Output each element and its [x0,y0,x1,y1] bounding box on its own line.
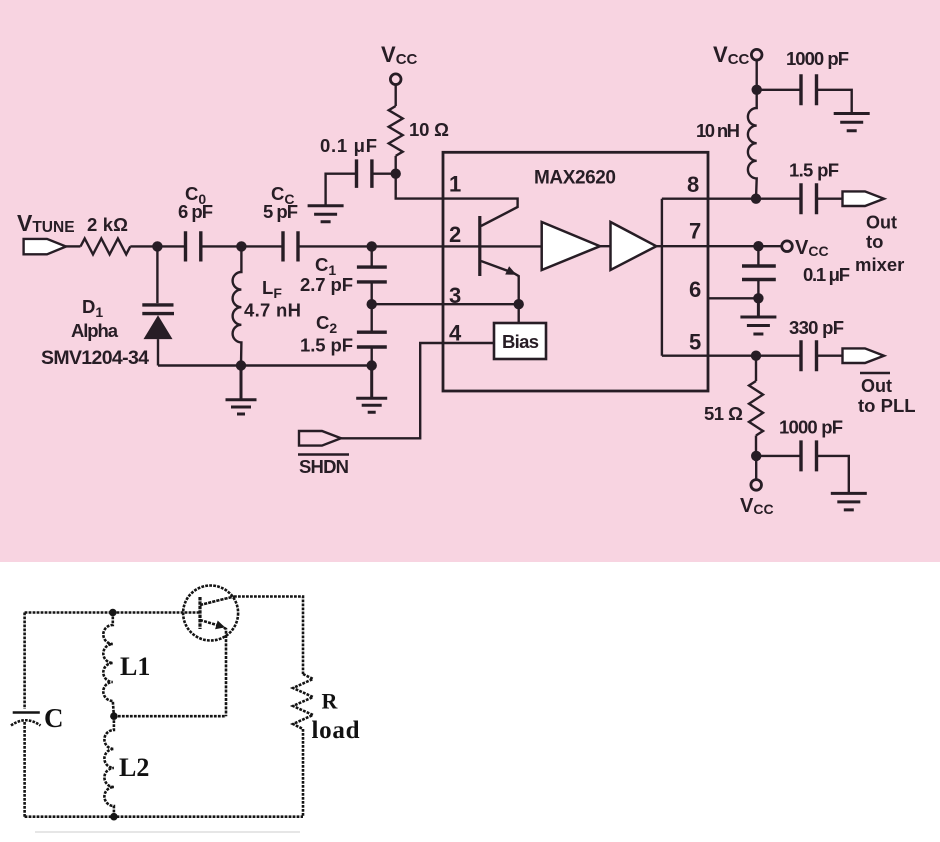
wire VCC to 10 Ohm [395,85,397,107]
wire 10 Ohm to pin1 node [395,156,397,174]
capacitor 1.5 pF output [789,160,843,215]
node 51 Ohm bottom junction [751,451,761,461]
transistor Q1 collector [200,597,234,606]
node LF bottom junction [236,360,246,370]
svg-text:1: 1 [449,172,461,197]
transistor Q1 circle [183,586,238,641]
wire top rail left to base [25,611,200,614]
node VCC coil junction [752,85,762,95]
wire VTUNE to R1 [66,245,81,247]
svg-text:6 pF: 6 pF [178,201,213,222]
node C junction at C1 top [367,241,377,251]
node SHDN input terminal [298,431,349,477]
varactor diode D1 Alpha SMV1204-34 [41,246,174,369]
capacitor Cc 5 pF [263,183,298,262]
capacitor 330 pF output [789,317,844,371]
svg-text:330 pF: 330 pF [789,317,844,338]
wire pin 4 from SHDN [341,343,494,438]
svg-text:5: 5 [689,330,701,355]
wire top rail right and right side down [234,597,303,675]
inductor L2 [104,716,149,817]
wire pin 3 line [372,303,519,305]
ground below C2 [356,366,387,413]
node L1 bottom junction [110,712,118,720]
wire R1 to node A [130,245,185,247]
transistor Q1 base bar [478,216,481,276]
node pin 6 junction [753,293,763,303]
svg-text:1000 pF: 1000 pF [786,48,849,69]
wire A1 to A2 [600,245,611,247]
ground below LF [226,366,257,415]
svg-text:load: load [312,717,360,744]
svg-text:5 pF: 5 pF [263,201,298,222]
capacitor C2 1.5 pF [300,304,387,365]
svg-text:7: 7 [689,219,701,244]
wire pin1 node into IC pin 1 [396,174,443,199]
wire emitter junction to Bias box [518,304,520,323]
capacitor C1 2.7 pF [300,246,387,304]
wire pin 8 to output cap [708,197,801,199]
svg-text:SHDN: SHDN [299,456,349,477]
node bottom rail junction [110,813,118,821]
capacitor 1000 pF top right [757,48,852,114]
node B junction [236,241,246,251]
resistor 51 Ohm [704,356,763,456]
node C2 bottom junction [367,360,377,370]
transistor Q1 emitter with arrow [200,620,226,716]
capacitor C0 6 pF [178,183,213,262]
node pin1 junction [391,169,401,179]
resistor R1 2 kOhm [81,214,131,254]
svg-text:4: 4 [449,320,462,345]
svg-text:0.1 μF: 0.1 μF [320,135,377,156]
transistor Q1 base bar [198,597,201,629]
resistor 10 Ohm [389,106,449,156]
wire middle rail to emitter [114,715,226,718]
wire ground rail D1/LF/C2 [158,364,372,366]
svg-text:SMV1204-34: SMV1204-34 [41,347,149,369]
ground below 0.1 uF [308,206,344,222]
wire pin 5 to output cap [708,355,801,357]
wire VCC down to coil node [756,60,758,90]
node Out to PLL terminal [843,348,916,416]
wire bottom rail [25,815,303,818]
ground below bottom right 1000 pF [831,493,867,510]
wire pin 6 [708,297,758,299]
ground below top right 1000 pF [834,114,870,131]
VCC terminal top center [381,42,418,84]
op-amp buffer A1 [542,222,600,270]
inductor LF 4.7 nH [233,246,301,365]
svg-text:Out: Out [861,376,892,396]
svg-text:6: 6 [689,277,701,302]
svg-text:Out: Out [866,213,897,233]
svg-text:Alpha: Alpha [71,320,119,341]
capacitor C [11,703,64,733]
capacitor 1000 pF bottom right [756,417,849,494]
svg-text:0.1 μF: 0.1 μF [803,264,850,285]
svg-text:2.7 pF: 2.7 pF [300,274,353,295]
svg-text:L1: L1 [120,652,150,681]
svg-text:4.7 nH: 4.7 nH [244,300,301,321]
svg-text:C: C [44,703,64,733]
wire left side upper [23,613,26,710]
ground below pin 6 [740,298,776,334]
svg-text:2: 2 [449,222,461,247]
wire A2 output bracket to pins 8 5 7 [656,199,708,356]
wire Cc to pin 2 and buffer input [298,245,542,247]
svg-text:10 nH: 10 nH [696,120,740,141]
pink background panel [0,0,940,562]
Bias box [494,323,546,359]
capacitor 0.1 uF pin7 bypass [742,246,850,298]
wire pin1 to transistor collector [443,199,518,226]
svg-text:L2: L2 [119,753,149,782]
wire pin 7 to VCC [708,245,782,247]
svg-text:8: 8 [687,172,699,197]
svg-text:Bias: Bias [502,331,539,352]
svg-text:mixer: mixer [855,254,904,275]
VCC terminal bottom right [740,456,774,517]
svg-text:2 kΩ: 2 kΩ [87,214,128,235]
inductor L1 [103,613,150,717]
wire C0 to Cc [201,245,283,247]
svg-text:1.5 pF: 1.5 pF [300,335,353,356]
capacitor 0.1 uF pin1 bypass [320,135,396,206]
svg-text:to PLL: to PLL [858,395,916,416]
node L1 top junction [109,609,117,617]
node pin 5 junction [751,351,761,361]
svg-text:to: to [866,231,883,252]
node VTUNE input terminal [17,210,75,254]
IC MAX2620 box [443,152,708,391]
node pin 8 junction [751,194,761,204]
VCC terminal pin 7 [782,237,829,259]
node Out to mixer terminal [843,191,905,275]
wire left side lower [23,722,26,817]
svg-text:MAX2620: MAX2620 [534,167,616,188]
resistor R load [293,674,360,744]
transistor Q1 emitter with arrow [481,261,519,304]
op-amp buffer A2 [611,222,657,270]
node emitter junction on pin3 line [514,299,524,309]
svg-text:1000 pF: 1000 pF [779,417,843,438]
wire R load to bottom rail [302,729,305,817]
node A junction [152,241,162,251]
svg-text:R: R [322,689,339,714]
node C1 bottom junction [367,299,377,309]
VCC terminal top right [713,42,762,68]
svg-text:10 Ω: 10 Ω [409,119,449,140]
inductor 10 nH [696,90,757,199]
node pin 7 junction [753,241,763,251]
svg-text:1.5 pF: 1.5 pF [789,160,839,181]
scan artifact line [35,831,300,833]
svg-text:51 Ω: 51 Ω [704,403,743,424]
